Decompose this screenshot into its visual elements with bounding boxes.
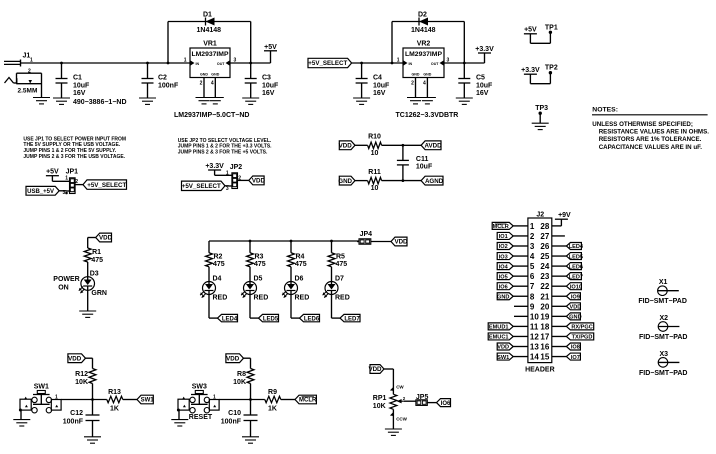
svg-text:GRN: GRN (91, 290, 107, 297)
svg-text:IO2: IO2 (499, 244, 508, 250)
svg-text:SW1: SW1 (34, 383, 49, 390)
svg-text:R2: R2 (214, 254, 223, 261)
svg-text:TX/PGD: TX/PGD (572, 335, 593, 341)
svg-text:RED: RED (295, 295, 310, 302)
svg-text:IO1: IO1 (499, 234, 508, 240)
svg-text:IO4: IO4 (499, 264, 509, 270)
svg-text:C11: C11 (416, 156, 429, 163)
svg-text:SW1: SW1 (497, 355, 509, 361)
svg-text:SW3: SW3 (192, 383, 207, 390)
svg-text:16: 16 (540, 343, 549, 352)
svg-text:RED: RED (254, 295, 269, 302)
svg-text:1K: 1K (110, 406, 119, 413)
svg-text:IO9: IO9 (571, 294, 580, 300)
svg-text:C3: C3 (262, 75, 271, 82)
svg-text:14: 14 (530, 353, 539, 362)
svg-text:IO3: IO3 (499, 254, 508, 260)
svg-text:C1: C1 (73, 75, 82, 82)
svg-text:16V: 16V (73, 90, 86, 97)
svg-text:15: 15 (540, 353, 549, 362)
svg-text:+5V: +5V (46, 169, 59, 176)
svg-text:D6: D6 (295, 276, 304, 283)
svg-text:100nF: 100nF (221, 419, 242, 426)
svg-text:9: 9 (530, 302, 535, 311)
svg-text:C12: C12 (70, 410, 83, 417)
svg-text:RESET: RESET (189, 414, 213, 421)
svg-text:19: 19 (540, 312, 549, 321)
svg-text:23: 23 (540, 272, 549, 281)
svg-text:4: 4 (530, 252, 535, 261)
svg-text:+9V: +9V (558, 212, 571, 219)
svg-text:1: 1 (184, 58, 187, 64)
svg-text:10uF: 10uF (262, 82, 279, 89)
svg-text:RESISTANCE VALUES ARE IN OHMS.: RESISTANCE VALUES ARE IN OHMS. (599, 129, 710, 136)
svg-text:475: 475 (91, 257, 103, 264)
svg-text:3: 3 (226, 186, 229, 192)
svg-text:1: 1 (213, 394, 216, 400)
svg-text:IO10: IO10 (570, 284, 582, 290)
svg-text:IO8: IO8 (571, 345, 580, 351)
svg-text:C4: C4 (373, 75, 382, 82)
svg-text:LED6: LED6 (569, 264, 583, 270)
svg-text:D2: D2 (418, 12, 427, 19)
svg-text:475: 475 (254, 261, 266, 268)
svg-text:10K: 10K (373, 403, 386, 410)
svg-text:MCLR: MCLR (299, 398, 317, 404)
svg-text:1: 1 (30, 58, 33, 64)
svg-text:D4: D4 (213, 276, 222, 283)
svg-text:JP4: JP4 (360, 231, 373, 238)
svg-text:LED5: LED5 (263, 316, 279, 322)
svg-text:11: 11 (530, 322, 539, 331)
svg-text:26: 26 (540, 242, 549, 251)
svg-text:+3.3V: +3.3V (205, 163, 224, 170)
svg-text:+3.3V: +3.3V (475, 46, 494, 53)
svg-text:VR2: VR2 (417, 41, 431, 48)
svg-text:R4: R4 (296, 254, 305, 261)
svg-text:2: 2 (411, 81, 414, 87)
svg-text:C5: C5 (476, 75, 485, 82)
svg-text:+5V_SELECT: +5V_SELECT (87, 182, 126, 189)
svg-text:+3.3V: +3.3V (521, 67, 540, 74)
svg-text:LED4: LED4 (569, 244, 584, 250)
svg-text:RESISTORS ARE 1% TOLERANCE.: RESISTORS ARE 1% TOLERANCE. (599, 136, 702, 143)
svg-text:1K: 1K (268, 406, 277, 413)
svg-text:LM2937IMP−5.0CT−ND: LM2937IMP−5.0CT−ND (174, 112, 249, 119)
svg-text:JUMP PINS 2 & 3 FOR THE +5 VOL: JUMP PINS 2 & 3 FOR THE +5 VOLTS. (178, 150, 268, 156)
svg-text:JP2: JP2 (230, 164, 243, 171)
svg-text:RED: RED (335, 295, 350, 302)
svg-text:4: 4 (423, 81, 426, 87)
svg-text:TC1262−3.3VDBTR: TC1262−3.3VDBTR (396, 112, 459, 119)
svg-text:IN: IN (409, 62, 413, 66)
svg-text:GND: GND (338, 178, 352, 185)
svg-text:LED5: LED5 (569, 254, 583, 260)
svg-text:C10: C10 (228, 410, 241, 417)
svg-text:HEADER: HEADER (525, 367, 555, 374)
svg-text:475: 475 (336, 261, 348, 268)
svg-text:R1: R1 (92, 249, 101, 256)
svg-text:R13: R13 (108, 389, 121, 396)
svg-text:CW: CW (396, 385, 404, 390)
svg-text:USB_+5V: USB_+5V (27, 189, 54, 195)
svg-text:+5V_SELECT: +5V_SELECT (308, 60, 347, 67)
svg-text:20: 20 (540, 302, 549, 311)
svg-text:UNLESS OTHERWISE SPECIFIED;: UNLESS OTHERWISE SPECIFIED; (592, 121, 693, 128)
svg-text:22: 22 (540, 282, 549, 291)
svg-text:VDD: VDD (339, 143, 353, 150)
svg-text:FID−SMT−PAD: FID−SMT−PAD (639, 370, 688, 377)
svg-text:4: 4 (211, 81, 214, 87)
svg-text:10uF: 10uF (373, 82, 390, 89)
svg-text:VDD: VDD (226, 355, 240, 362)
svg-text:FID−SMT−PAD: FID−SMT−PAD (638, 298, 687, 305)
svg-text:2: 2 (28, 68, 31, 74)
svg-text:IO6: IO6 (441, 401, 451, 407)
svg-text:12: 12 (530, 332, 539, 341)
svg-text:TP2: TP2 (545, 65, 558, 72)
svg-text:100nF: 100nF (158, 82, 179, 89)
svg-text:24: 24 (540, 262, 549, 271)
svg-text:16V: 16V (373, 90, 386, 97)
svg-text:LED7: LED7 (344, 316, 360, 322)
svg-text:3: 3 (63, 190, 66, 196)
svg-text:CCW: CCW (396, 417, 407, 422)
svg-text:RX/PGC: RX/PGC (571, 325, 592, 331)
svg-text:VDD: VDD (99, 235, 113, 242)
svg-text:R8: R8 (237, 371, 246, 378)
svg-text:VDD: VDD (394, 239, 408, 246)
svg-text:JP1: JP1 (66, 168, 79, 175)
svg-text:R5: R5 (336, 254, 345, 261)
svg-text:10: 10 (371, 185, 379, 192)
svg-text:GND: GND (211, 73, 219, 77)
svg-text:13: 13 (530, 343, 539, 352)
svg-text:VDD: VDD (569, 305, 581, 311)
svg-text:TP3: TP3 (535, 105, 548, 112)
svg-text:18: 18 (540, 322, 549, 331)
svg-text:5: 5 (530, 262, 535, 271)
svg-text:ON: ON (58, 285, 68, 292)
svg-text:RP1: RP1 (373, 395, 387, 402)
svg-text:8: 8 (530, 292, 535, 301)
svg-text:R12: R12 (75, 371, 88, 378)
svg-text:VR1: VR1 (203, 41, 217, 48)
svg-text:X3: X3 (660, 351, 669, 358)
svg-text:R11: R11 (368, 169, 381, 176)
svg-text:LM2937IMP: LM2937IMP (191, 51, 228, 58)
svg-text:JUMP PINS 2 & 3 FOR THE USB VO: JUMP PINS 2 & 3 FOR THE USB VOLTAGE. (23, 154, 125, 160)
svg-text:EMUD1: EMUD1 (489, 325, 509, 331)
svg-text:IN: IN (196, 62, 200, 66)
svg-text:D5: D5 (254, 276, 263, 283)
svg-text:GND: GND (412, 73, 420, 77)
svg-text:J2: J2 (536, 212, 544, 219)
svg-text:LED4: LED4 (222, 316, 238, 322)
svg-text:OUT: OUT (217, 62, 225, 66)
svg-text:VDD: VDD (252, 178, 266, 185)
svg-text:MCLR: MCLR (493, 224, 509, 230)
svg-text:EMUC1: EMUC1 (489, 335, 509, 341)
svg-text:1: 1 (530, 222, 535, 231)
svg-text:2: 2 (200, 81, 203, 87)
svg-text:GND: GND (200, 73, 208, 77)
svg-text:3: 3 (530, 242, 535, 251)
svg-text:10: 10 (530, 312, 539, 321)
svg-text:X2: X2 (660, 315, 669, 322)
svg-text:SW1: SW1 (141, 398, 155, 404)
svg-text:D7: D7 (335, 276, 344, 283)
svg-text:LM2937IMP: LM2937IMP (405, 51, 442, 58)
svg-text:TP1: TP1 (545, 24, 558, 31)
svg-text:1N4148: 1N4148 (411, 27, 436, 34)
svg-text:GND: GND (569, 315, 581, 321)
svg-text:2: 2 (530, 232, 535, 241)
svg-text:16V: 16V (262, 90, 275, 97)
svg-text:OUT: OUT (431, 62, 439, 66)
svg-text:10uF: 10uF (476, 82, 493, 89)
svg-text:RED: RED (213, 295, 228, 302)
svg-text:10K: 10K (233, 379, 246, 386)
svg-text:25: 25 (540, 252, 549, 261)
svg-text:2.5MM: 2.5MM (18, 88, 38, 95)
svg-text:+5V_SELECT: +5V_SELECT (182, 183, 221, 190)
svg-text:POWER: POWER (53, 276, 79, 283)
svg-text:AGND: AGND (425, 178, 444, 185)
svg-text:VDD: VDD (368, 366, 382, 373)
svg-text:CAPACITANCE VALUES ARE IN uF.: CAPACITANCE VALUES ARE IN uF. (599, 144, 703, 151)
svg-text:6: 6 (530, 272, 535, 281)
svg-text:D1: D1 (203, 12, 212, 19)
svg-text:100nF: 100nF (63, 419, 84, 426)
svg-text:R3: R3 (255, 254, 264, 261)
svg-text:27: 27 (540, 232, 549, 241)
svg-text:+5V: +5V (264, 44, 277, 51)
svg-text:10K: 10K (75, 379, 88, 386)
svg-text:10uF: 10uF (73, 82, 90, 89)
svg-text:LED7: LED7 (569, 274, 583, 280)
svg-text:16V: 16V (476, 90, 489, 97)
svg-text:GND: GND (423, 73, 431, 77)
svg-text:IO5: IO5 (499, 274, 508, 280)
svg-text:LED6: LED6 (304, 316, 320, 322)
svg-text:GND: GND (497, 294, 509, 300)
svg-text:X1: X1 (659, 279, 668, 286)
svg-text:+5V: +5V (524, 27, 537, 34)
svg-text:17: 17 (540, 332, 549, 341)
svg-text:IO7: IO7 (571, 355, 580, 361)
svg-text:475: 475 (295, 261, 307, 268)
svg-text:1: 1 (65, 176, 68, 182)
svg-text:IO6: IO6 (499, 284, 508, 290)
svg-text:R10: R10 (368, 134, 381, 141)
svg-text:1N4148: 1N4148 (197, 27, 222, 34)
svg-text:1: 1 (55, 394, 58, 400)
svg-text:28: 28 (540, 222, 549, 231)
svg-text:VDD: VDD (497, 345, 509, 351)
svg-text:10uF: 10uF (416, 163, 433, 170)
svg-text:21: 21 (540, 292, 549, 301)
svg-text:7: 7 (530, 282, 535, 291)
svg-text:D3: D3 (90, 271, 99, 278)
svg-text:R9: R9 (268, 389, 277, 396)
svg-text:VDD: VDD (68, 355, 82, 362)
svg-text:1: 1 (397, 58, 400, 64)
svg-text:475: 475 (213, 261, 225, 268)
svg-text:490−3886−1−ND: 490−3886−1−ND (73, 99, 127, 106)
svg-text:10: 10 (371, 150, 379, 157)
svg-text:NOTES:: NOTES: (592, 107, 618, 114)
svg-text:C2: C2 (158, 75, 167, 82)
svg-text:AVDD: AVDD (425, 143, 443, 150)
svg-text:FID−SMT−PAD: FID−SMT−PAD (639, 334, 688, 341)
